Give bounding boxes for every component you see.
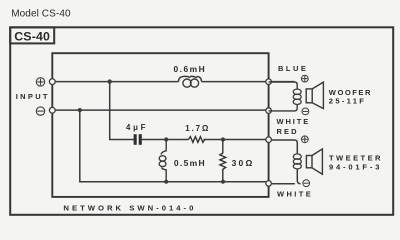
terminal RED (open circle)	[266, 137, 272, 143]
terminal WHITE tweeter (open circle)	[266, 181, 272, 187]
svg-text:Model CS-40: Model CS-40	[11, 9, 71, 20]
svg-text:INPUT: INPUT	[16, 92, 50, 101]
terminal BLUE (open circle)	[266, 79, 272, 85]
svg-text:0.6mH: 0.6mH	[174, 64, 207, 74]
woofer speaker icon	[306, 82, 323, 109]
tweeter minus mark	[303, 180, 310, 187]
junction D (resistor/30ohm node)	[221, 137, 225, 141]
tweeter voice coil	[293, 154, 301, 169]
terminal WHITE woofer (open circle)	[266, 108, 272, 114]
woofer voice coil leads	[269, 82, 298, 111]
wire: top rail from input + to BLUE terminal	[52, 81, 294, 83]
svg-text:WHITE: WHITE	[277, 117, 311, 126]
woofer plus mark	[301, 75, 308, 82]
junction F (bottom rail / 30ohm)	[221, 180, 225, 184]
tweeter plus mark	[301, 136, 308, 143]
wire: lower rail from input - to WHITE terminal	[52, 109, 268, 111]
junction A on top rail	[108, 79, 112, 83]
woofer voice coil	[293, 89, 301, 104]
inductor L1 0.6mH	[179, 76, 202, 87]
outer border box	[10, 27, 393, 215]
wire: drop from junction B to bottom rail	[80, 110, 269, 182]
woofer minus mark	[302, 108, 309, 115]
resistor R1 1.7ohm	[189, 137, 205, 143]
CS-40 label box	[10, 27, 54, 43]
resistor R2 30ohm vertical	[220, 140, 226, 182]
junction C (cap/0.5mH node)	[164, 137, 168, 141]
tweeter speaker icon	[306, 149, 322, 174]
svg-text:NETWORK SWN-014-0: NETWORK SWN-014-0	[63, 204, 196, 213]
svg-text:CS-40: CS-40	[14, 30, 50, 44]
capacitor C1 4uF	[134, 134, 142, 145]
junction B on lower rail	[78, 108, 82, 112]
svg-text:RED: RED	[277, 127, 299, 136]
input terminal - (open circle)	[49, 107, 55, 113]
input terminal + (open circle)	[49, 79, 55, 85]
wire: tweeter + lead	[269, 140, 298, 154]
svg-text:0.5mH: 0.5mH	[174, 158, 206, 168]
wire: tweeter - lead	[269, 169, 301, 184]
svg-text:25-11F: 25-11F	[329, 96, 366, 105]
junction E (bottom rail / 0.5mH)	[164, 180, 168, 184]
svg-text:4μF: 4μF	[126, 123, 148, 132]
svg-text:30Ω: 30Ω	[232, 158, 255, 168]
network inner box	[52, 53, 268, 197]
input minus symbol	[36, 107, 44, 115]
svg-text:BLUE: BLUE	[278, 64, 308, 73]
svg-text:94-01F-3: 94-01F-3	[329, 162, 382, 171]
svg-text:TWEETER: TWEETER	[329, 153, 383, 162]
wire: mid rail cap to resistor	[142, 139, 269, 141]
wire: drop from junction A to mid rail	[110, 82, 134, 140]
inductor L2 0.5mH vertical	[159, 140, 166, 182]
input plus symbol	[36, 78, 44, 86]
svg-text:WHITE: WHITE	[277, 189, 313, 198]
svg-text:1.7Ω: 1.7Ω	[185, 124, 210, 133]
